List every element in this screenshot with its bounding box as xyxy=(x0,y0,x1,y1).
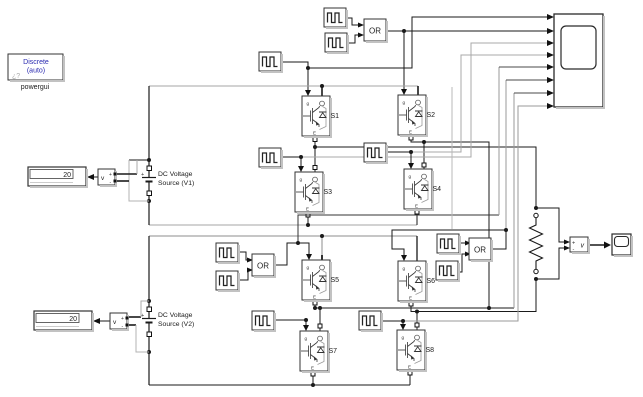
port square S8 collector xyxy=(415,323,419,327)
wire: S8 emitter drop xyxy=(409,370,411,385)
wire: S2 collector drop xyxy=(417,86,419,95)
wire: S6 collector drop xyxy=(416,236,418,261)
svg-text:DC Voltage: DC Voltage xyxy=(158,171,193,178)
junction V1- bus at S3 xyxy=(306,223,310,227)
arrowhead scope input 7 xyxy=(547,90,554,96)
pulse generator P7 xyxy=(252,311,276,332)
svg-text:S4: S4 xyxy=(433,186,442,193)
wire: pulse generator P6b to OR6 input 2 xyxy=(455,254,470,272)
junction OR6 output tap xyxy=(504,228,508,232)
junction node B2 xyxy=(415,310,419,314)
wire: V2 positive bus to S5 and S6 collectors xyxy=(149,235,417,237)
arrowhead VM3 input 2 xyxy=(564,246,570,251)
junction on S1 gate wire xyxy=(306,66,310,70)
arrowhead OR5 input 2 xyxy=(247,268,253,273)
port square V1 plus terminal xyxy=(147,166,152,171)
svg-text:v: v xyxy=(581,243,585,250)
arrowhead OR5 input 1 xyxy=(247,258,253,263)
pulse generator P3 xyxy=(259,148,283,169)
svg-text:S6: S6 xyxy=(427,278,436,285)
port square S6 emitter xyxy=(409,302,413,306)
wire: load top to VM3 plus input xyxy=(536,208,566,242)
arrowhead into S2 gate xyxy=(401,89,407,95)
junction load bottom xyxy=(534,277,538,281)
wire: OR6 output to S6 gate, tap to scope input 6 xyxy=(392,80,548,255)
junction V2 top xyxy=(147,299,151,303)
port circle R top xyxy=(534,213,538,217)
svg-text:Discrete: Discrete xyxy=(23,59,49,66)
port circle R bottom xyxy=(534,269,538,273)
wire: V1 sense loop to voltage measurement VM1 xyxy=(115,160,149,201)
wire: VM3 output to scope2 xyxy=(588,244,608,246)
port stub S5 collector xyxy=(321,255,323,261)
svg-text:S2: S2 xyxy=(427,112,436,119)
svg-text:-: - xyxy=(573,247,575,253)
junction S7 gate xyxy=(304,318,308,322)
wire: VM2 output to display D2 xyxy=(94,320,110,322)
junction V2- bus at S7 xyxy=(311,383,315,387)
transistor S3 xyxy=(295,172,325,214)
pulse generator P8 xyxy=(359,311,383,332)
arrowhead into scope2 xyxy=(604,242,611,249)
DC voltage source V1 battery symbol xyxy=(142,178,156,182)
transistor S1 xyxy=(302,96,332,138)
junction load top xyxy=(534,206,538,210)
voltage measurement VM3 xyxy=(570,237,590,254)
display D1 xyxy=(28,167,88,188)
wire: pulse generator P6a to OR6 input 1 xyxy=(456,242,470,244)
junction node A2 at S7 xyxy=(318,306,322,310)
arrowhead scope input 8 xyxy=(547,103,554,109)
wire: node A2 from S5 emitter to S7 collector xyxy=(315,300,514,331)
voltage measurement VM2 xyxy=(110,313,129,331)
port square V1 minus terminal xyxy=(147,191,152,196)
pulse generator P5b xyxy=(216,271,240,292)
scope block Scope2 xyxy=(612,234,633,257)
wire: S4 gate from pulse generator P4, tap to scope input 4 xyxy=(386,55,548,165)
wire: V1 positive bus to S1 and S2 collectors xyxy=(149,85,418,87)
arrowhead into S5 gate xyxy=(306,254,312,260)
arrowhead into S6 gate xyxy=(401,255,407,261)
svg-text:+: + xyxy=(141,172,144,178)
junction V2 bottom xyxy=(147,350,151,354)
voltage measurement VM1 xyxy=(98,169,117,187)
pulse generator P4 xyxy=(364,143,388,164)
wire: S5 collector drop xyxy=(321,236,323,256)
transistor S6 xyxy=(398,261,428,303)
arrowhead into S7 gate xyxy=(303,325,309,331)
arrowhead scope input 1 xyxy=(547,14,554,20)
port square S4 emitter xyxy=(415,210,419,214)
port square S3 emitter xyxy=(306,213,310,217)
svg-text:S8: S8 xyxy=(426,347,435,354)
port square V2 minus terminal xyxy=(147,332,152,337)
wire: load bottom to VM3 minus input xyxy=(536,248,566,279)
junction S4 gate xyxy=(409,150,413,154)
wire: V2 sense loop to voltage measurement VM2 xyxy=(127,301,149,352)
svg-text:(auto): (auto) xyxy=(27,68,45,75)
port square S7 emitter xyxy=(311,372,315,376)
logical OR block OR5 xyxy=(252,254,276,278)
wire: S8 gate from pulse generator P8, tap to scope input 8 xyxy=(381,106,548,326)
svg-text:powergui: powergui xyxy=(21,84,50,91)
wire: S4 emitter drop xyxy=(416,209,418,225)
arrowhead scope input 3 xyxy=(547,40,554,46)
arrowhead scope input 4 xyxy=(547,52,554,58)
wire: VM1 output to display D1 xyxy=(88,176,98,178)
wire: pulse generator P2b to OR1 input 2 xyxy=(347,35,358,43)
wire: V2 negative bus to S7 and S8 emitters xyxy=(149,384,410,386)
arrowhead OR1 input 2 xyxy=(358,33,364,38)
svg-text:Source (V2): Source (V2) xyxy=(158,321,194,328)
logical OR block OR1 xyxy=(364,19,388,43)
arrowhead into S4 gate xyxy=(408,163,414,169)
svg-text:¿?: ¿? xyxy=(12,73,20,80)
arrowhead into S8 gate xyxy=(400,324,406,330)
svg-text:S3: S3 xyxy=(324,189,333,196)
junction S8 gate xyxy=(401,319,405,323)
wire: pulse generator P2a to OR1 input 1 xyxy=(346,18,358,25)
wire: node B1 to node A2 series link xyxy=(424,142,489,308)
wire: node A1 from S1 emitter to S3 collector xyxy=(314,136,316,172)
pulse generator P2a xyxy=(324,8,348,29)
arrowhead scope input 5 xyxy=(547,64,554,70)
wire: S1 collector drop xyxy=(321,86,323,96)
arrowhead scope input 2 xyxy=(547,28,554,34)
arrowhead OR6 input 2 xyxy=(465,252,471,257)
wire: OR1 output to scope input 2 and S2 gate xyxy=(386,31,548,91)
wire: S3 emitter drop xyxy=(307,212,309,225)
wire: pulse generator P5a to OR5 input 1 xyxy=(238,252,252,260)
junction S3 gate xyxy=(299,155,303,159)
arrowhead OR6 input 1 xyxy=(465,241,471,246)
powergui block xyxy=(8,54,65,82)
transistor S4 xyxy=(404,169,434,211)
junction node B1 xyxy=(422,140,426,144)
transistor S7 xyxy=(300,331,330,373)
arrowhead into S1 gate xyxy=(305,90,311,96)
wire: S7 emitter drop xyxy=(312,371,314,385)
pulse generator P6a xyxy=(437,234,461,255)
junction V2+ bus at S5 xyxy=(320,234,324,238)
DC voltage source V2 battery symbol xyxy=(142,319,156,323)
junction S5 gate node xyxy=(296,241,300,245)
arrowhead into display D1 xyxy=(87,174,94,180)
wire: S6 emitter to S8 collector and load bottom xyxy=(411,279,536,330)
arrowhead into display D2 xyxy=(93,318,100,324)
pulse generator P5a xyxy=(216,243,240,264)
port square S1 emitter xyxy=(313,138,317,142)
port square S8 emitter xyxy=(408,371,412,375)
junction V1 top xyxy=(147,158,151,162)
junction V1 bottom xyxy=(147,199,151,203)
port square S3 collector xyxy=(313,166,317,170)
wire: V1 negative bus to S3 and S4 emitters xyxy=(149,224,417,226)
pulse generator P6b xyxy=(436,261,460,282)
wire: V2 vertical rail xyxy=(148,236,150,385)
port square S7 collector xyxy=(318,324,322,328)
junction V1+ bus at S1 xyxy=(320,84,324,88)
wire: OR5 output to S5 gate, tap to scope input 5 xyxy=(274,67,548,265)
transistor S5 xyxy=(302,260,332,302)
resistor R load xyxy=(530,218,543,269)
arrowhead OR1 input 1 xyxy=(358,23,364,28)
arrowhead VM3 input 1 xyxy=(564,240,570,245)
svg-text:S7: S7 xyxy=(329,348,338,355)
port square S4 collector xyxy=(422,163,426,167)
transistor S8 xyxy=(397,330,427,372)
svg-text:S5: S5 xyxy=(331,277,340,284)
svg-text:Source (V1): Source (V1) xyxy=(158,180,194,187)
wire: S7 gate from pulse generator P7, tap to scope input 7 xyxy=(274,93,548,327)
junction node A1 xyxy=(313,145,317,149)
arrowhead into S3 gate xyxy=(298,166,304,172)
wire: long vertical signal line x=452 xyxy=(451,87,453,229)
junction node A2 at B1 link xyxy=(487,306,491,310)
wire: pulse generator P5b to OR5 input 2 xyxy=(238,270,252,280)
port square S2 emitter xyxy=(409,136,413,140)
wire: S3 gate from pulse generator P3, tap to scope input 3 xyxy=(281,43,548,168)
wire: node A1 to load top xyxy=(315,147,536,208)
wire: S1 gate signal from pulse generator to S1 and scope input 1 xyxy=(281,17,548,92)
pulse generator P1 xyxy=(259,52,283,73)
wire: V1 vertical rail xyxy=(148,86,150,225)
wire: node B1 from S2 emitter to S4 collector xyxy=(411,135,424,169)
svg-text:S1: S1 xyxy=(331,113,340,120)
transistor S2 xyxy=(398,95,428,137)
arrowhead scope input 6 xyxy=(547,77,554,83)
logical OR block OR6 xyxy=(469,238,493,262)
junction on OR1 output xyxy=(402,29,406,33)
pulse generator P2b xyxy=(325,33,349,54)
display D2 xyxy=(34,311,94,332)
scope block Scope1 xyxy=(554,14,605,109)
port square S5 emitter xyxy=(313,301,317,305)
junction node A2 xyxy=(313,306,317,310)
port square V2 plus terminal xyxy=(147,307,152,312)
svg-text:DC Voltage: DC Voltage xyxy=(158,312,193,319)
